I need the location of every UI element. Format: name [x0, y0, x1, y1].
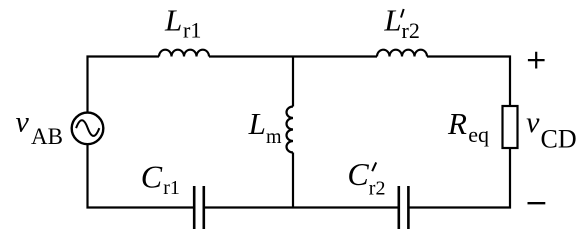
- inductor L_m: [248, 106, 293, 153]
- svg-text:CD: CD: [541, 125, 577, 154]
- inductor L_r1: [159, 3, 209, 57]
- svg-text:L: L: [248, 106, 266, 141]
- minus sign (v_CD polarity): [528, 202, 546, 204]
- svg-text:C: C: [347, 156, 369, 192]
- svg-text:eq: eq: [468, 122, 489, 147]
- svg-text:r1: r1: [183, 17, 201, 42]
- inductor L'r2: [377, 3, 427, 57]
- svg-text:r2: r2: [402, 18, 420, 43]
- wire: top-middle segment (L_r1 to L'_r2, through middle node): [209, 55, 377, 57]
- wire: bottom-middle segment (C'_r2 left plate to C_r1 right plate, through middle node): [204, 206, 399, 208]
- svg-text:v: v: [16, 106, 30, 139]
- wire: middle branch bottom (L_m coil to bottom-wire node): [292, 153, 294, 208]
- AC source v_AB: [16, 106, 104, 149]
- svg-text:m: m: [266, 126, 282, 148]
- svg-text:R: R: [447, 106, 467, 141]
- svg-text:r1: r1: [163, 177, 180, 199]
- plus sign (v_CD polarity): [528, 52, 545, 69]
- svg-text:AB: AB: [31, 124, 63, 149]
- wire: right-bottom segment (resistor bottom to bottom-right corner to C'_r2 right plate): [408, 148, 510, 208]
- svg-text:r2: r2: [369, 178, 386, 200]
- capacitor C_r1: [141, 158, 204, 229]
- svg-text:L: L: [383, 3, 401, 38]
- wire: bottom-left segment (C_r1 left plate to bottom-left corner up to source bottom): [88, 145, 195, 208]
- capacitor C'r2: [347, 156, 408, 229]
- wire: top-left segment (source top to top-left corner to L_r1 left end): [88, 57, 160, 113]
- svg-text:v: v: [526, 106, 540, 139]
- svg-text:C: C: [141, 158, 163, 194]
- wire: middle branch top (top-wire node down to L_m coil): [292, 57, 294, 107]
- svg-text:L: L: [164, 3, 182, 38]
- resistor R_eq: [447, 106, 518, 148]
- wire: top-right segment (L'_r2 to top-right corner down to resistor top): [427, 57, 510, 107]
- label v_CD: [526, 106, 577, 154]
